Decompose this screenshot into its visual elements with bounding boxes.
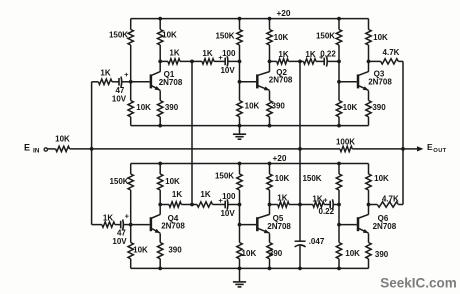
- node: Q1 collector node: [158, 60, 162, 64]
- svg-text:1K: 1K: [200, 190, 210, 199]
- svg-text:4.7K: 4.7K: [382, 194, 399, 203]
- label 10K (Q4 collector): [165, 177, 180, 186]
- label .047 (shunt cap): [309, 237, 325, 246]
- svg-text:OUT: OUT: [433, 148, 446, 154]
- svg-text:47: 47: [115, 86, 124, 95]
- node: Q2 base node: [238, 80, 242, 84]
- transistor Q3 2N708: [358, 72, 369, 91]
- node: lower gnd rail / Q6 10K: [337, 267, 341, 271]
- node: gnd rail / Q2 10K + ground tap: [238, 124, 242, 128]
- label 100K (output series): [336, 137, 355, 146]
- node: lower gnd rail / Q5 390: [268, 267, 272, 271]
- power +20 label (upper rail): [276, 8, 290, 18]
- resistor 390 (Q2 emitter, upper): [267, 91, 272, 126]
- svg-text:10K: 10K: [345, 249, 360, 258]
- svg-text:2N708: 2N708: [269, 76, 293, 85]
- svg-text:2N708: 2N708: [368, 77, 392, 86]
- resistor 4.7K (lower output): [369, 202, 404, 207]
- resistor 10K (Q4 collector, lower): [158, 164, 163, 205]
- node: gnd rail / Q2 390: [268, 124, 272, 128]
- node: Q2 collector node: [268, 60, 272, 64]
- resistor 1K (coupling Q4-Q5 a, lower): [169, 202, 192, 207]
- node: upper rail / Q3 bias 150K junction: [337, 17, 341, 21]
- label 10K (Q6 base-gnd): [345, 249, 360, 258]
- node: Q4 base node: [129, 223, 133, 227]
- wire: E OUT lead with arrow: [403, 146, 423, 151]
- node: upper rail / Q1 collector 10K junction: [158, 17, 162, 21]
- wire: Q4 collector to 1K: [160, 204, 169, 206]
- resistor 10K (Q3 collector, upper): [366, 19, 371, 62]
- svg-text:10K: 10K: [162, 30, 177, 39]
- wire: Q2 base riser: [239, 61, 241, 81]
- node: lower rail / Q5 bias 150K junction: [238, 162, 242, 166]
- label 2N708 (Q2): [269, 76, 293, 85]
- resistor 150K (Q2 base bias, upper): [237, 19, 242, 62]
- label 150K (Q6 bias): [302, 174, 321, 183]
- label 150K (Q4 bias): [109, 177, 128, 186]
- node: lower rail / Q5 collector 10K junction: [268, 162, 272, 166]
- svg-text:1K: 1K: [169, 49, 179, 58]
- svg-text:10V: 10V: [112, 95, 127, 104]
- label 4.7K (upper): [383, 48, 400, 57]
- svg-text:150K: 150K: [302, 174, 321, 183]
- label 2N708 (Q3): [368, 77, 392, 86]
- label 100 (coupling cap): [222, 49, 236, 58]
- capacitor 0.22 (coupling Q5-Q6): [324, 199, 339, 209]
- svg-text:10K: 10K: [133, 246, 148, 255]
- svg-text:10V: 10V: [220, 209, 235, 218]
- watermark SeekIC.com: [380, 276, 457, 291]
- resistor 10K (Q3 base-gnd, upper): [336, 82, 341, 126]
- label 390 (Q4 emitter): [168, 246, 182, 255]
- wire: lower +20 supply rail: [131, 163, 369, 165]
- label 2N708 (Q1): [159, 78, 183, 87]
- resistor 1K (coupling Q2-Q3 b, upper): [300, 59, 316, 64]
- resistor 10K (Q4 base-gnd, lower): [128, 225, 133, 269]
- node: lower rail / Q4 collector 10K junction: [158, 162, 162, 166]
- terminal E IN: [44, 148, 47, 151]
- label Q2: [276, 68, 287, 77]
- resistor 150K (Q4 base bias, lower): [128, 164, 133, 225]
- svg-text:4.7K: 4.7K: [383, 48, 400, 57]
- transistor Q5 2N708: [257, 214, 269, 233]
- label Q6: [378, 214, 389, 223]
- label 10K (Q2 base-gnd): [245, 101, 260, 110]
- svg-text:.047: .047: [309, 237, 325, 246]
- resistor 1K (coupling Q1-Q2 a, upper): [168, 59, 192, 64]
- wire: Q6 base lead: [339, 224, 357, 226]
- svg-text:1K: 1K: [103, 213, 113, 222]
- svg-text:1K: 1K: [278, 50, 288, 59]
- wire: output column (4.7K upper to 4.7K lower): [402, 61, 404, 204]
- resistor 390 (Q5 emitter, lower): [267, 233, 272, 268]
- wire: input riser to upper 1K: [91, 82, 93, 149]
- label 1K (coupling Q5-Q6 b): [312, 195, 322, 204]
- wire: Q6 collector lead: [368, 205, 370, 215]
- node: lower gnd rail / 0.047 cap: [298, 267, 302, 271]
- svg-text:100K: 100K: [336, 137, 355, 146]
- node: lower gnd rail / Q4 390: [158, 267, 162, 271]
- ground (lower amplifier): [233, 268, 246, 287]
- wire: E IN lead: [48, 148, 56, 150]
- svg-text:+20: +20: [272, 153, 286, 163]
- node: tap column / signal line junction: [298, 147, 302, 151]
- svg-text:10K: 10K: [245, 101, 260, 110]
- wire: Q3 base riser: [338, 61, 340, 81]
- node: Q3 collector node: [367, 60, 371, 64]
- wire: signal line (input junction to 100K): [92, 148, 340, 150]
- resistor 10K (Q6 collector, lower): [366, 164, 371, 205]
- wire: Q1 base lead: [131, 81, 150, 83]
- label 10K (Q3 collector): [373, 33, 388, 42]
- resistor 390 (Q3 emitter, upper): [366, 91, 371, 126]
- wire: Q2 collector to 1K: [270, 60, 277, 62]
- transistor Q1 2N708: [151, 72, 160, 91]
- label 150K (Q2 bias): [215, 32, 234, 41]
- resistor 150K (Q6 base bias, lower): [336, 164, 341, 205]
- wire: Q1 collector to 1K: [160, 60, 168, 62]
- resistor 1K (coupling Q4-Q5 b, lower): [192, 202, 213, 207]
- svg-text:+: +: [125, 211, 130, 220]
- svg-text:2N708: 2N708: [267, 222, 291, 231]
- label 0.22 (coupling cap): [320, 50, 336, 59]
- label 1K (coupling Q2-Q3 a): [278, 50, 288, 59]
- svg-text:10K: 10K: [373, 33, 388, 42]
- label 10K (Q6 collector): [374, 174, 389, 183]
- svg-text:IN: IN: [33, 148, 40, 155]
- label 2N708 (Q6): [373, 222, 397, 231]
- svg-text:150K: 150K: [109, 177, 128, 186]
- label + (coupling cap Q1-Q2): [218, 53, 223, 62]
- node: Q3 base node: [337, 80, 341, 84]
- resistor 390 (Q6 emitter, lower): [366, 233, 371, 268]
- node: lower twin-T junction A: [190, 203, 194, 207]
- wire: Q5 collector to 1K: [270, 204, 278, 206]
- capacitor 0.047 (lower twin-T shunt): [295, 205, 306, 269]
- resistor 1K (upper input): [92, 79, 113, 84]
- label 10V (coupling cap lower): [220, 209, 235, 218]
- svg-text:2N708: 2N708: [159, 78, 183, 87]
- label 390 (Q3 emitter): [372, 103, 386, 112]
- transistor Q4 2N708: [151, 214, 160, 233]
- resistor 10K (Q6 base-gnd, lower): [336, 225, 341, 269]
- wire: Q5 base riser: [239, 205, 241, 225]
- label Q4: [168, 214, 179, 223]
- svg-text:10K: 10K: [343, 103, 358, 112]
- svg-text:10K: 10K: [275, 174, 290, 183]
- node: output column / signal line junction: [401, 147, 405, 151]
- label 390 (Q6 emitter): [375, 250, 389, 259]
- label 150K (Q1 bias): [109, 30, 128, 39]
- node: 150K/cap junction (Q6 bias): [337, 203, 341, 207]
- svg-text:10K: 10K: [55, 134, 70, 143]
- node: Q5 base node: [238, 223, 242, 227]
- svg-text:10V: 10V: [112, 237, 127, 246]
- resistor 1K (coupling Q5-Q6 b, lower): [300, 202, 324, 207]
- svg-text:150K: 150K: [215, 32, 234, 41]
- wire: twin-T bridge column (upper junction A to lower junction A): [191, 61, 193, 204]
- wire: Q3 base lead: [339, 81, 357, 83]
- resistor 1K (lower input): [92, 222, 115, 227]
- resistor 10K (Q5 base-gnd, lower): [237, 225, 242, 269]
- svg-text:10K: 10K: [374, 174, 389, 183]
- label 4.7K (lower): [382, 194, 399, 203]
- svg-text:100: 100: [222, 49, 236, 58]
- label 1K (coupling Q4-Q5 a): [172, 190, 182, 199]
- label 10K (Q1 base-gnd): [136, 103, 151, 112]
- label Q5: [273, 214, 284, 223]
- capacitor 100uF 10V (coupling Q4-Q5): [213, 199, 240, 209]
- svg-text:390: 390: [272, 101, 286, 110]
- label E IN: [24, 142, 40, 154]
- label + (upper input cap): [124, 70, 129, 79]
- node: upper twin-T junction B: [298, 60, 302, 64]
- capacitor 47uF 10V (lower input): [115, 219, 131, 229]
- label 1K (coupling Q4-Q5 b): [200, 190, 210, 199]
- svg-text:E: E: [24, 142, 30, 152]
- resistor 1K (coupling Q2-Q3 a, upper): [277, 59, 300, 64]
- node: gnd rail / Q1 390: [158, 124, 162, 128]
- resistor 1K (coupling Q1-Q2 b, upper): [192, 59, 214, 64]
- svg-text:+: +: [124, 70, 129, 79]
- wire: lower ground rail: [131, 267, 369, 269]
- node: Q5 collector node: [268, 203, 272, 207]
- svg-text:150K: 150K: [215, 172, 234, 181]
- resistor 10K (input series): [56, 146, 92, 151]
- svg-text:10K: 10K: [165, 177, 180, 186]
- label 100 (coupling cap lower): [222, 192, 236, 201]
- label 1K (upper input): [100, 69, 110, 78]
- svg-text:+: +: [323, 198, 327, 205]
- label E OUT: [427, 142, 447, 154]
- transistor Q6 2N708: [358, 214, 369, 233]
- label Q1: [164, 70, 175, 79]
- node: Q4 collector node: [158, 203, 162, 207]
- svg-text:390: 390: [168, 246, 182, 255]
- svg-text:150K: 150K: [109, 30, 128, 39]
- label 47 (lower input cap): [117, 229, 126, 238]
- label 1K (coupling Q1-Q2 a): [169, 49, 179, 58]
- label 0.22 (coupling cap lower): [319, 207, 335, 216]
- resistor 10K (Q1 base-gnd, upper): [128, 82, 133, 126]
- label + (lower input cap): [125, 211, 130, 220]
- resistor 10K (Q2 collector, upper): [267, 19, 272, 62]
- node: upper rail / Q2 collector 10K junction: [268, 17, 272, 21]
- capacitor 47uF 10V (upper input): [112, 77, 131, 87]
- label + (coupling cap Q4-Q5): [218, 196, 223, 205]
- resistor 390 (Q4 emitter, lower): [158, 233, 163, 268]
- svg-text:2N708: 2N708: [373, 222, 397, 231]
- node: upper twin-T junction A: [190, 60, 194, 64]
- svg-text:150K: 150K: [316, 32, 335, 41]
- svg-text:10V: 10V: [220, 66, 235, 75]
- node: lower twin-T junction B: [298, 203, 302, 207]
- svg-text:1K: 1K: [172, 190, 182, 199]
- svg-text:390: 390: [372, 103, 386, 112]
- svg-text:0.22: 0.22: [319, 207, 335, 216]
- node: 150K/cap junction (Q3 bias): [337, 60, 341, 64]
- label 1K (coupling Q2-Q3 b): [305, 50, 315, 59]
- wire: Q5 collector lead: [269, 205, 271, 215]
- svg-text:1K: 1K: [312, 195, 322, 204]
- resistor 10K (Q2 base-gnd, upper): [237, 82, 242, 126]
- label 2N708 (Q5): [267, 222, 291, 231]
- label 47 (upper input cap): [115, 86, 124, 95]
- node: lower rail / Q6 bias 150K junction: [337, 162, 341, 166]
- node: Q1 base node: [129, 80, 133, 84]
- label 390 (Q2 emitter): [272, 101, 286, 110]
- wire: Q3 collector lead: [368, 61, 370, 71]
- capacitor 0.22 (coupling Q2-Q3): [316, 56, 339, 66]
- svg-text:390: 390: [165, 103, 179, 112]
- svg-text:10K: 10K: [274, 33, 289, 42]
- wire: tap column (upper junction B to lower junction B): [299, 61, 301, 204]
- svg-text:2N708: 2N708: [161, 221, 185, 230]
- label 390 (Q1 emitter): [165, 103, 179, 112]
- svg-text:10K: 10K: [136, 103, 151, 112]
- label 10K (Q5 collector): [275, 174, 290, 183]
- label 10K (Q3 base-gnd): [343, 103, 358, 112]
- label 10V (upper input cap): [112, 95, 127, 104]
- svg-text:+20: +20: [276, 8, 290, 18]
- node: Q6 base node: [337, 223, 341, 227]
- label 10K (Q1 collector): [162, 30, 177, 39]
- svg-text:1K: 1K: [202, 49, 212, 58]
- resistor 100K (output series): [340, 146, 403, 151]
- power +20 label (lower rail): [272, 153, 286, 163]
- label + (0.22 cap upper): [319, 55, 323, 62]
- label 10K (input series): [55, 134, 70, 143]
- wire: upper ground rail: [131, 125, 369, 127]
- label 10V (coupling cap): [220, 66, 235, 75]
- capacitor 100uF 10V (coupling Q1-Q2): [214, 56, 240, 66]
- resistor 150K (Q3 base bias, upper): [336, 19, 341, 62]
- label 1K (lower input): [103, 213, 113, 222]
- resistor 150K (Q1 base bias, upper): [128, 19, 133, 82]
- node: 150K/cap junction (Q2 bias): [238, 60, 242, 64]
- label 1K (coupling Q1-Q2 b): [202, 49, 212, 58]
- ground (upper amplifier): [233, 126, 246, 140]
- label 150K (Q3 bias): [316, 32, 335, 41]
- resistor 150K (Q5 base bias, lower): [237, 164, 242, 205]
- wire: Q4 collector lead: [159, 205, 161, 215]
- transistor Q2 2N708: [257, 72, 269, 91]
- node: 150K/cap junction (Q5 bias): [238, 203, 242, 207]
- svg-text:1K: 1K: [100, 69, 110, 78]
- svg-text:1K: 1K: [277, 194, 287, 203]
- svg-text:10K: 10K: [242, 249, 257, 258]
- svg-text:390: 390: [375, 250, 389, 259]
- resistor 10K (Q5 collector, lower): [267, 164, 272, 205]
- resistor 1K (coupling Q5-Q6 a, lower): [278, 202, 300, 207]
- wire: upper +20 supply rail: [131, 18, 369, 20]
- svg-text:SeekIC.com: SeekIC.com: [380, 276, 457, 291]
- label 10K (Q4 base-gnd): [133, 246, 148, 255]
- resistor 10K (Q1 collector, upper): [158, 19, 163, 62]
- svg-text:390: 390: [269, 249, 283, 258]
- resistor 390 (Q1 emitter, upper): [158, 91, 163, 126]
- label Q3: [374, 70, 385, 79]
- wire: Q5 base lead: [240, 224, 257, 226]
- label + (0.22 cap lower): [323, 198, 327, 205]
- label 150K (Q5 bias): [215, 172, 234, 181]
- wire: Q6 base riser: [338, 205, 340, 225]
- svg-text:E: E: [427, 142, 433, 152]
- node: gnd rail / Q3 10K: [337, 124, 341, 128]
- node: lower gnd rail / Q5 10K + ground tap: [238, 267, 242, 271]
- node: Q6 collector node: [367, 203, 371, 207]
- label 1K (coupling Q5-Q6 a): [277, 194, 287, 203]
- wire: Q2 collector lead: [269, 61, 271, 71]
- svg-text:100: 100: [222, 192, 236, 201]
- wire: input riser to lower 1K: [91, 149, 93, 225]
- label 10K (Q5 base-gnd): [242, 249, 257, 258]
- wire: Q2 base lead: [240, 81, 257, 83]
- label 10V (lower input cap): [112, 237, 127, 246]
- svg-text:0.22: 0.22: [320, 50, 336, 59]
- label 10K (Q2 collector): [274, 33, 289, 42]
- resistor 4.7K (upper output): [369, 59, 404, 64]
- label 390 (Q5 emitter): [269, 249, 283, 258]
- wire: Q1 collector lead: [159, 61, 161, 71]
- label 2N708 (Q4): [161, 221, 185, 230]
- node: input riser / signal line junction: [90, 147, 94, 151]
- wire: Q4 base lead: [131, 224, 150, 226]
- node: upper rail / Q2 bias 150K junction: [238, 17, 242, 21]
- svg-text:1K: 1K: [305, 50, 315, 59]
